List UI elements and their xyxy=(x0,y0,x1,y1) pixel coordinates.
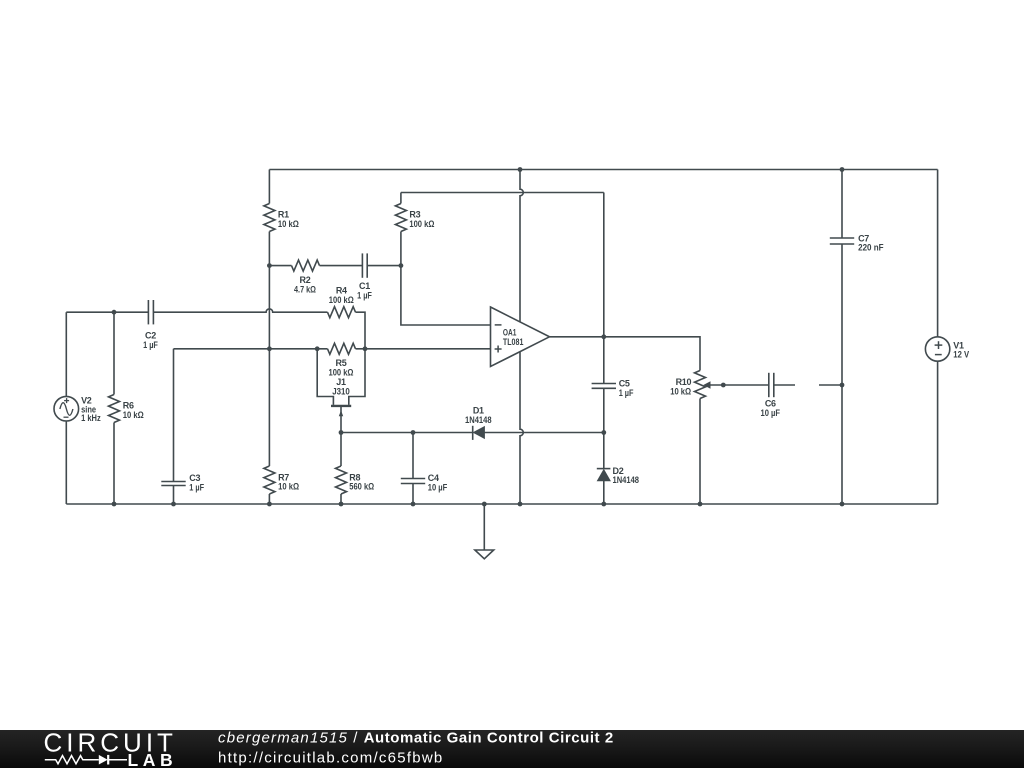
wire D2 bottom lead xyxy=(603,481,605,504)
resistor R1 xyxy=(264,204,275,232)
wire C2 right plate to R4 with hop over node A column xyxy=(153,309,327,312)
label V1 xyxy=(953,340,969,359)
wire R1 top lead xyxy=(268,170,270,204)
label OA1 xyxy=(503,328,524,347)
resistor R4 xyxy=(328,307,356,318)
logo word CIRCUIT xyxy=(44,728,177,758)
label R5 and J1 xyxy=(329,358,354,396)
wire C1 right plate to R3 node xyxy=(367,265,401,267)
wire R3 bottom lead to node xyxy=(400,232,402,266)
wire R6 top lead xyxy=(113,312,115,394)
label V2 xyxy=(81,396,101,424)
logo resistor-diode squiggle xyxy=(45,755,127,765)
wire R6 bottom lead xyxy=(113,423,115,505)
wire R1 bottom lead to R2 node xyxy=(268,232,270,266)
label C5 xyxy=(619,379,634,398)
wire R10 bottom lead xyxy=(699,399,701,505)
logo word LAB xyxy=(128,750,178,768)
circuitlab logo xyxy=(0,730,200,768)
wire plus row from C3 column to op-amp non-inverting input xyxy=(174,348,491,350)
label C1 xyxy=(357,281,372,300)
wire feedback column from feedback row down through C5 to D2 xyxy=(603,193,605,469)
resistor R6 xyxy=(109,395,120,423)
wire R8 column leads xyxy=(340,433,342,505)
wire open stub to C7 column xyxy=(819,384,842,386)
svg-text:http://circuitlab.com/c65fbwb: http://circuitlab.com/c65fbwb xyxy=(218,750,444,767)
wire R10 wiper to C6 left plate xyxy=(710,384,768,386)
label C7 xyxy=(858,233,884,252)
svg-text:cbergerman1515 / Automatic Gai: cbergerman1515 / Automatic Gain Control … xyxy=(218,730,614,747)
resistor R3 xyxy=(395,204,406,232)
capacitor C2 xyxy=(148,300,153,324)
label R8 xyxy=(349,472,374,491)
sine source V2 xyxy=(54,396,79,421)
label D1 xyxy=(465,405,492,424)
diode D2 xyxy=(597,469,611,481)
label R2 xyxy=(294,275,316,294)
label C2 xyxy=(143,331,158,350)
wire V1 column top xyxy=(937,170,939,338)
wire R2 right lead to C1 left plate xyxy=(320,265,363,267)
resistor R7 xyxy=(264,466,275,494)
label D2 xyxy=(613,466,640,485)
resistor R2 xyxy=(292,260,320,271)
op-amp OA1 xyxy=(491,307,550,367)
wire R2 left lead xyxy=(269,265,291,267)
label C3 xyxy=(189,473,204,492)
wire D1 row from J1 gate node to feedback column xyxy=(341,432,604,434)
wire C4 column xyxy=(412,433,414,505)
footer line 1: author / title xyxy=(218,730,614,747)
diode D1 xyxy=(473,426,485,440)
wire bottom rail xyxy=(66,503,937,505)
wire V2 column top xyxy=(65,312,67,396)
resistor R5 xyxy=(328,343,356,354)
potentiometer R10 xyxy=(695,371,711,399)
capacitor C7 xyxy=(830,238,854,244)
capacitor C1 xyxy=(362,253,367,277)
footer line 2: url xyxy=(218,750,444,767)
wire R7 column leads xyxy=(268,349,270,504)
wire node A column from R2 node straight down to plus row xyxy=(268,266,270,349)
footer bar xyxy=(0,730,1024,768)
resistor R8 xyxy=(336,466,347,494)
wire R3 top lead xyxy=(400,193,402,204)
wire R4 right lead down to plus row xyxy=(356,312,366,349)
capacitor C3 xyxy=(161,482,185,486)
capacitor C4 xyxy=(401,479,425,484)
label R7 xyxy=(278,472,299,491)
dc source V1 xyxy=(925,337,949,361)
wire V2 column bottom xyxy=(65,421,67,504)
label R6 xyxy=(123,400,144,419)
ground xyxy=(475,504,494,559)
capacitor C6 xyxy=(769,373,774,397)
wire C6 right plate stub xyxy=(774,384,795,386)
wire C2 row from V2 column to C2 left plate xyxy=(66,311,148,313)
capacitor C5 xyxy=(592,384,616,389)
wire R3 node down and right to op-amp inverting input xyxy=(401,266,491,325)
label R1 xyxy=(278,210,299,229)
jfet J1 xyxy=(317,349,365,433)
label C6 xyxy=(761,399,781,418)
label R10 xyxy=(670,377,691,396)
wire V1 column bottom xyxy=(937,361,939,504)
wire C3 column from plus row down to bottom rail xyxy=(173,349,175,504)
wire mid column from top rail through hops down to bottom rail xyxy=(520,170,523,505)
wire C7 column xyxy=(841,170,843,505)
wire feedback row from R3 top to output column xyxy=(401,192,604,194)
label C4 xyxy=(428,473,448,492)
wire op-amp output to R10 top xyxy=(550,337,701,371)
wire top rail from R1 top to V1 top xyxy=(269,169,937,171)
label R4 xyxy=(329,286,354,305)
label R3 xyxy=(409,210,434,229)
